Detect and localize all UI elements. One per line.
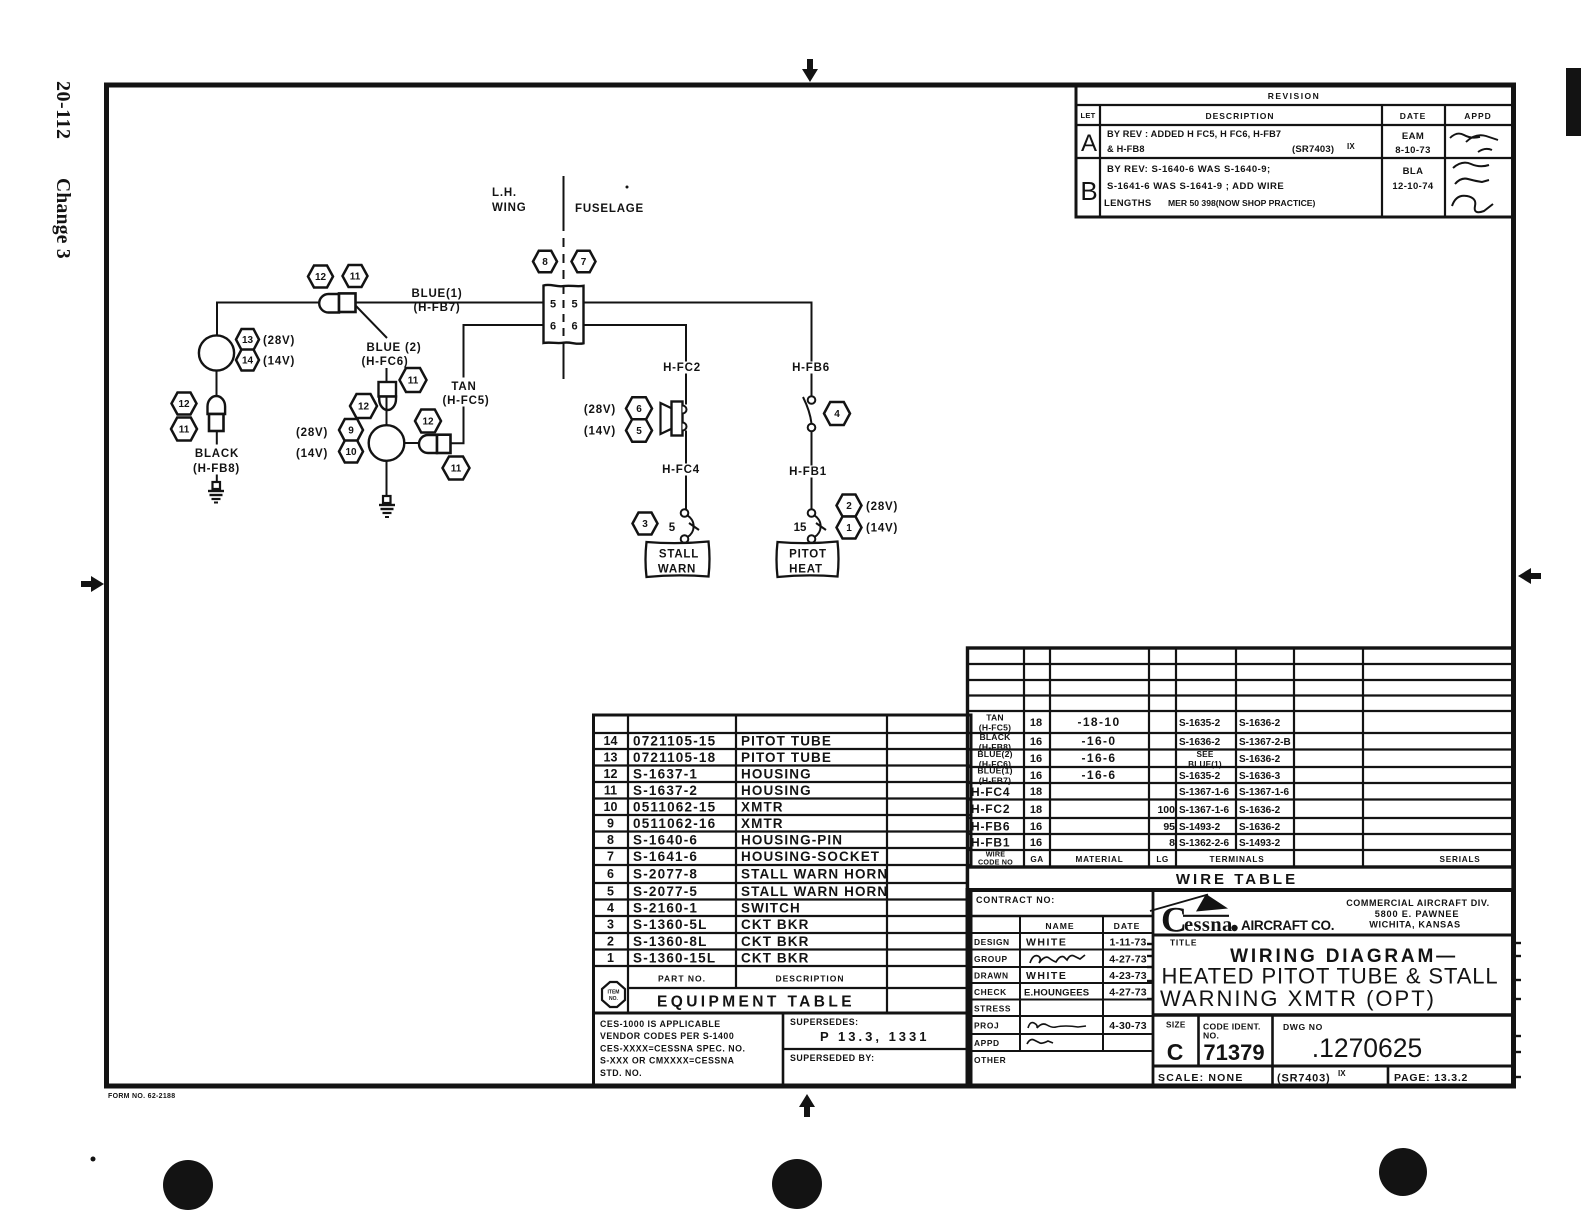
wire BLACK (H-FB8) to ground <box>216 431 218 482</box>
svg-text:AIRCRAFT CO.: AIRCRAFT CO. <box>1241 918 1334 933</box>
svg-text:(14V): (14V) <box>584 426 616 438</box>
svg-text:S-1635-2: S-1635-2 <box>1179 771 1221 782</box>
wire label BLUE(1) (H-FB7) <box>412 288 463 314</box>
svg-text:4: 4 <box>607 901 614 915</box>
svg-text:MER 50 398(NOW SHOP PRACTICE): MER 50 398(NOW SHOP PRACTICE) <box>1168 198 1316 208</box>
equipment table <box>594 715 972 1013</box>
svg-text:PART NO.: PART NO. <box>658 974 706 984</box>
svg-text:STD. NO.: STD. NO. <box>600 1068 642 1078</box>
svg-text:12: 12 <box>604 767 618 781</box>
svg-text:(28V): (28V) <box>584 404 616 416</box>
svg-text:XMTR: XMTR <box>741 816 784 831</box>
svg-text:S-1493-2: S-1493-2 <box>1239 838 1281 849</box>
svg-text:L.H.: L.H. <box>492 187 517 199</box>
svg-text:H-FB1: H-FB1 <box>789 466 827 478</box>
svg-text:11: 11 <box>408 376 419 387</box>
svg-text:TAN: TAN <box>986 713 1004 723</box>
svg-text:4-30-73: 4-30-73 <box>1109 1020 1147 1032</box>
svg-text:CONTRACT NO:: CONTRACT NO: <box>976 895 1055 905</box>
svg-text:11: 11 <box>179 425 190 436</box>
switch item 4 <box>803 396 815 431</box>
stall warning horn <box>661 402 687 436</box>
connector pair 12/11 on BLUE(1) <box>319 293 355 312</box>
svg-text:16: 16 <box>1030 821 1042 833</box>
ground symbol (pitot) <box>208 482 224 503</box>
svg-text:FORM NO. 62-2188: FORM NO. 62-2188 <box>108 1093 175 1100</box>
svg-text:CES-1000 IS APPLICABLE: CES-1000 IS APPLICABLE <box>600 1019 721 1029</box>
svg-text:GROUP: GROUP <box>974 954 1008 964</box>
svg-text:20-112: 20-112 <box>52 81 74 140</box>
svg-text:0511062-15: 0511062-15 <box>633 800 716 815</box>
svg-text:S-XXX OR CMXXXX=CESSNA: S-XXX OR CMXXXX=CESSNA <box>600 1056 735 1066</box>
svg-text:18: 18 <box>1030 786 1042 798</box>
svg-text:S-1637-1: S-1637-1 <box>633 767 698 782</box>
svg-text:HOUSING: HOUSING <box>741 767 812 782</box>
svg-text:H-FB1: H-FB1 <box>971 836 1010 850</box>
svg-text:P 13.3, 1331: P 13.3, 1331 <box>820 1029 930 1044</box>
svg-text:SUPERSEDES:: SUPERSEDES: <box>790 1017 859 1027</box>
wire label TAN (H-FC5) <box>437 378 495 408</box>
svg-text:HOUSING-PIN: HOUSING-PIN <box>741 833 843 848</box>
svg-text:BLUE(1): BLUE(1) <box>977 766 1012 776</box>
svg-text:15: 15 <box>794 522 807 534</box>
equipment table notes and supersedes boxes <box>594 1013 972 1085</box>
binder hole dot right <box>1379 1148 1427 1196</box>
svg-text:EQUIPMENT TABLE: EQUIPMENT TABLE <box>657 994 855 1011</box>
svg-text:CHECK: CHECK <box>974 987 1007 997</box>
connector pin BLUE(2) to xmtr, items 12/11 <box>379 382 397 410</box>
wire label H-FC2 <box>660 362 704 375</box>
svg-text:HEATED PITOT TUBE & STALL: HEATED PITOT TUBE & STALL <box>1161 964 1498 989</box>
binder hole dot center <box>772 1159 822 1209</box>
wire label H-FB6 <box>788 362 834 375</box>
svg-text:B: B <box>1080 176 1097 206</box>
svg-text:NO.: NO. <box>609 996 619 1002</box>
svg-text:GA: GA <box>1030 855 1043 864</box>
svg-text:H-FB6: H-FB6 <box>971 820 1010 834</box>
voltage labels for pitot breaker <box>866 501 898 535</box>
wire H-FC2 from pin 6 <box>584 325 686 405</box>
svg-text:BY REV: S-1640-6 WAS S-1640-9;: BY REV: S-1640-6 WAS S-1640-9; <box>1107 164 1271 175</box>
svg-text:6: 6 <box>571 321 577 333</box>
svg-text:HOUSING-SOCKET: HOUSING-SOCKET <box>741 849 880 864</box>
svg-text:5: 5 <box>550 299 556 311</box>
item 12 callout <box>350 394 377 418</box>
PITOT HEAT destination box <box>777 542 839 578</box>
binder hole dot left <box>163 1160 213 1210</box>
svg-text:9: 9 <box>607 817 614 831</box>
svg-text:TAN: TAN <box>451 381 476 393</box>
svg-text:8-10-73: 8-10-73 <box>1395 145 1431 156</box>
svg-text:WARNING XMTR (OPT): WARNING XMTR (OPT) <box>1160 986 1436 1011</box>
wire branch to BLUE(2) <box>356 306 387 382</box>
wire pitot tube to connector <box>216 371 218 395</box>
svg-text:H-FC4: H-FC4 <box>662 464 700 476</box>
svg-text:-16-6: -16-6 <box>1081 768 1116 782</box>
svg-text:6: 6 <box>636 404 642 415</box>
item 4 callout <box>824 402 850 425</box>
ground symbol (xmtr) <box>379 496 395 517</box>
voltage labels for xmtr <box>296 427 328 460</box>
registration bar top right <box>1566 68 1581 136</box>
svg-text:MATERIAL: MATERIAL <box>1075 855 1123 864</box>
svg-text:WICHITA, KANSAS: WICHITA, KANSAS <box>1369 920 1461 930</box>
svg-text:100: 100 <box>1157 804 1175 816</box>
svg-text:12-10-74: 12-10-74 <box>1392 181 1434 192</box>
item 1 callout <box>837 517 862 539</box>
svg-text:STRESS: STRESS <box>974 1003 1011 1013</box>
svg-text:DESCRIPTION: DESCRIPTION <box>775 974 844 984</box>
connector pair 12/11 on BLACK lead <box>208 396 226 431</box>
svg-text:S-2160-1: S-2160-1 <box>633 901 698 916</box>
svg-text:CES-XXXX=CESSNA SPEC. NO.: CES-XXXX=CESSNA SPEC. NO. <box>600 1043 745 1053</box>
svg-text:8: 8 <box>542 257 548 268</box>
svg-text:S-1641-6 WAS S-1641-9 ; ADD WI: S-1641-6 WAS S-1641-9 ; ADD WIRE <box>1107 181 1284 192</box>
svg-text:S-2077-5: S-2077-5 <box>633 884 698 899</box>
registration arrow top <box>802 59 818 82</box>
svg-text:13: 13 <box>604 751 618 765</box>
svg-text:16: 16 <box>1030 753 1042 765</box>
svg-text:S-1367-2-B: S-1367-2-B <box>1239 737 1291 748</box>
svg-text:S-1636-2: S-1636-2 <box>1179 737 1221 748</box>
item 9 callout <box>339 419 363 441</box>
svg-text:11: 11 <box>604 784 617 798</box>
svg-text:SIZE: SIZE <box>1166 1021 1186 1030</box>
connector pair 12/11 on TAN lead <box>419 435 451 453</box>
heated pitot tube (circle) <box>199 335 234 370</box>
svg-text:H-FC2: H-FC2 <box>663 362 701 374</box>
svg-text:PITOT TUBE: PITOT TUBE <box>741 750 832 765</box>
svg-text:WHITE: WHITE <box>1026 936 1067 948</box>
svg-text:95: 95 <box>1163 821 1175 833</box>
svg-text:4-27-73: 4-27-73 <box>1109 953 1147 965</box>
item 11 callout <box>443 457 470 480</box>
svg-text:S-1493-2: S-1493-2 <box>1179 822 1221 833</box>
svg-text:EAM: EAM <box>1402 131 1424 142</box>
svg-text:5: 5 <box>669 522 676 534</box>
svg-text:6: 6 <box>550 321 556 333</box>
svg-text:(28V): (28V) <box>296 427 328 439</box>
svg-text:XMTR: XMTR <box>741 800 784 815</box>
svg-text:CKT BKR: CKT BKR <box>741 951 809 966</box>
svg-text:E.HOUNGEES: E.HOUNGEES <box>1024 987 1089 998</box>
svg-text:-18-10: -18-10 <box>1077 715 1120 729</box>
svg-text:C: C <box>1161 900 1186 940</box>
wing/fuselage split line <box>563 176 565 379</box>
svg-text:(14V): (14V) <box>866 523 898 535</box>
svg-text:5: 5 <box>636 426 642 437</box>
svg-text:(14V): (14V) <box>296 448 328 460</box>
svg-text:WING: WING <box>492 202 527 214</box>
svg-text:1: 1 <box>846 523 852 534</box>
svg-text:PAGE: 13.3.2: PAGE: 13.3.2 <box>1394 1072 1468 1084</box>
svg-text:STALL WARN HORN: STALL WARN HORN <box>741 867 888 882</box>
svg-text:LG: LG <box>1156 855 1168 864</box>
svg-text:VENDOR CODES PER S-1400: VENDOR CODES PER S-1400 <box>600 1031 734 1041</box>
svg-text:NO.: NO. <box>1203 1031 1219 1041</box>
svg-text:Change 3: Change 3 <box>52 178 73 259</box>
svg-text:DRAWN: DRAWN <box>974 971 1009 981</box>
svg-text:DATE: DATE <box>1114 921 1141 931</box>
svg-text:NAME: NAME <box>1045 921 1074 931</box>
svg-text:S-1635-2: S-1635-2 <box>1179 718 1221 729</box>
svg-text:(SR7403): (SR7403) <box>1292 144 1334 155</box>
svg-text:WARN: WARN <box>658 564 696 576</box>
svg-text:10: 10 <box>604 800 618 814</box>
item 12 callout <box>415 410 441 433</box>
item 11 callout <box>400 368 427 392</box>
item 5 callout <box>626 419 652 442</box>
svg-text:S-1360-5L: S-1360-5L <box>633 917 708 932</box>
svg-text:BLUE(1): BLUE(1) <box>412 288 463 300</box>
svg-text:7: 7 <box>607 850 614 864</box>
svg-text:S-1367-1-6: S-1367-1-6 <box>1179 805 1229 816</box>
svg-text:12: 12 <box>422 417 434 428</box>
item 7 callout <box>572 251 596 272</box>
svg-text:1: 1 <box>607 951 614 965</box>
svg-text:S-1360-8L: S-1360-8L <box>633 934 708 949</box>
STALL WARN destination box <box>646 542 710 578</box>
svg-text:H-FC4: H-FC4 <box>971 785 1010 799</box>
svg-text:BLACK: BLACK <box>195 448 239 460</box>
svg-text:PITOT: PITOT <box>789 549 827 561</box>
svg-text:5: 5 <box>571 299 577 311</box>
svg-text:DESIGN: DESIGN <box>974 937 1010 947</box>
svg-text:4: 4 <box>834 409 840 420</box>
svg-text:TERMINALS: TERMINALS <box>1210 855 1265 864</box>
revision table <box>1076 86 1513 218</box>
circuit breaker 5A (stall warn) <box>681 509 699 543</box>
item 14 callout <box>236 350 259 371</box>
svg-text:0721105-18: 0721105-18 <box>633 750 716 765</box>
svg-text:18: 18 <box>1030 804 1042 816</box>
wire H-FB7 BLUE(1) horizontal run to disconnect pin 5 <box>217 303 543 336</box>
item 12 callout <box>308 266 333 288</box>
svg-text:16: 16 <box>1030 736 1042 748</box>
svg-text:WHITE: WHITE <box>1026 970 1067 982</box>
wire xmtr to TAN connector <box>404 442 419 444</box>
svg-text:SUPERSEDED BY:: SUPERSEDED BY: <box>790 1053 875 1063</box>
voltage labels for pitot tube <box>263 335 295 368</box>
svg-text:S-1640-6: S-1640-6 <box>633 833 698 848</box>
svg-text:essna: essna <box>1184 914 1233 936</box>
item 3 callout <box>633 513 658 535</box>
svg-text:3: 3 <box>607 918 614 932</box>
wire H-FC4 horn to breaker <box>685 431 687 510</box>
svg-text:12: 12 <box>178 399 190 410</box>
item 6 callout <box>626 397 652 420</box>
svg-text:4-23-73: 4-23-73 <box>1109 970 1147 982</box>
svg-text:14: 14 <box>242 356 254 367</box>
svg-text:S-1641-6: S-1641-6 <box>633 849 698 864</box>
svg-text:COMMERCIAL AIRCRAFT DIV.: COMMERCIAL AIRCRAFT DIV. <box>1346 898 1490 908</box>
svg-text:BLUE(1): BLUE(1) <box>1188 760 1222 769</box>
stall warning transmitter (circle) <box>369 396 405 461</box>
svg-text:BLUE(2): BLUE(2) <box>977 749 1012 759</box>
svg-text:FUSELAGE: FUSELAGE <box>575 203 644 215</box>
svg-text:-16-6: -16-6 <box>1081 751 1116 765</box>
svg-text:CODE NO: CODE NO <box>978 858 1013 867</box>
svg-text:S-1636-3: S-1636-3 <box>1239 771 1281 782</box>
wing/fuselage disconnect block pins 5/6 <box>544 285 584 344</box>
svg-text:(28V): (28V) <box>866 501 898 513</box>
svg-text:IX: IX <box>1338 1069 1346 1078</box>
wire table <box>968 648 1514 890</box>
form number <box>108 1093 175 1100</box>
svg-text:H-FC2: H-FC2 <box>971 802 1010 816</box>
svg-text:BLUE (2): BLUE (2) <box>367 342 422 354</box>
svg-text:WIRE TABLE: WIRE TABLE <box>1176 871 1298 888</box>
svg-text:S-2077-8: S-2077-8 <box>633 867 698 882</box>
svg-text:13: 13 <box>242 335 254 346</box>
voltage labels for horn <box>584 404 616 438</box>
xmtr ground wire <box>386 461 388 497</box>
item 2 callout <box>837 495 862 517</box>
svg-text:SERIALS: SERIALS <box>1439 855 1480 864</box>
item 11 callout <box>171 418 197 441</box>
svg-text:LENGTHS: LENGTHS <box>1104 198 1152 209</box>
svg-text:18: 18 <box>1030 717 1042 729</box>
svg-text:8: 8 <box>1169 837 1175 849</box>
svg-text:CKT BKR: CKT BKR <box>741 934 809 949</box>
svg-text:5800 E. PAWNEE: 5800 E. PAWNEE <box>1375 909 1460 919</box>
wire TAN (H-FC5) up to disconnect pin 6 <box>451 325 544 443</box>
svg-text:SEE: SEE <box>1197 750 1214 759</box>
svg-text:6: 6 <box>607 867 614 881</box>
svg-text:2: 2 <box>607 935 614 949</box>
svg-text:12: 12 <box>315 272 327 283</box>
svg-text:APPD: APPD <box>1464 111 1492 121</box>
svg-text:TITLE: TITLE <box>1170 938 1197 948</box>
wire H-FB1 switch to breaker <box>811 432 813 510</box>
svg-text:(28V): (28V) <box>263 335 295 347</box>
svg-text:S-1360-15L: S-1360-15L <box>633 951 716 966</box>
svg-text:S-1637-2: S-1637-2 <box>633 783 698 798</box>
svg-text:(H-FB7): (H-FB7) <box>413 302 460 314</box>
item 10 callout <box>339 441 363 463</box>
svg-text:7: 7 <box>581 257 587 268</box>
svg-text:HOUSING: HOUSING <box>741 783 812 798</box>
registration arrow right <box>1518 568 1541 584</box>
svg-text:STALL: STALL <box>659 549 699 561</box>
svg-text:DATE: DATE <box>1400 111 1427 121</box>
svg-text:HEAT: HEAT <box>789 564 823 576</box>
title block <box>968 890 1522 1086</box>
svg-text:S-1367-1-6: S-1367-1-6 <box>1179 787 1229 798</box>
svg-text:(H-FC6): (H-FC6) <box>361 356 408 368</box>
svg-text:11: 11 <box>451 464 462 475</box>
wire label BLUE(2) (H-FC6) <box>361 342 421 368</box>
svg-text:SCALE: NONE: SCALE: NONE <box>1158 1072 1244 1084</box>
svg-text:S-1636-2: S-1636-2 <box>1239 718 1281 729</box>
wing/fuselage station labels <box>492 187 644 215</box>
svg-text:71379: 71379 <box>1203 1040 1264 1065</box>
svg-text:ITEM: ITEM <box>608 990 620 996</box>
svg-text:S-1367-1-6: S-1367-1-6 <box>1239 787 1289 798</box>
svg-text:APPD: APPD <box>974 1038 1000 1048</box>
svg-text:5: 5 <box>607 885 614 899</box>
svg-text:S-1636-2: S-1636-2 <box>1239 822 1281 833</box>
svg-text:.1270625: .1270625 <box>1312 1033 1423 1063</box>
svg-text:S-1362-2-6: S-1362-2-6 <box>1179 838 1229 849</box>
svg-text:4-27-73: 4-27-73 <box>1109 986 1147 998</box>
wire label H-FB1 <box>786 466 830 479</box>
svg-text:2: 2 <box>846 501 852 512</box>
breaker rating 5 <box>669 522 676 534</box>
svg-text:S-1636-2: S-1636-2 <box>1239 805 1281 816</box>
svg-text:DWG NO: DWG NO <box>1283 1022 1323 1032</box>
svg-text:CKT BKR: CKT BKR <box>741 917 809 932</box>
svg-text:0721105-15: 0721105-15 <box>633 734 716 749</box>
item 8 callout <box>533 251 557 272</box>
svg-text:S-1636-2: S-1636-2 <box>1239 754 1281 765</box>
breaker rating 15 <box>794 522 807 534</box>
svg-text:PITOT TUBE: PITOT TUBE <box>741 734 832 749</box>
svg-text:9: 9 <box>348 426 354 437</box>
svg-text:11: 11 <box>350 272 361 283</box>
svg-text:C: C <box>1167 1039 1184 1065</box>
svg-text:PROJ: PROJ <box>974 1021 999 1031</box>
svg-text:SWITCH: SWITCH <box>741 901 801 916</box>
svg-text:BLACK: BLACK <box>979 732 1011 742</box>
svg-text:LET: LET <box>1080 111 1095 120</box>
svg-text:BY REV : ADDED H FC5, H FC6, H: BY REV : ADDED H FC5, H FC6, H-FB7 <box>1107 129 1281 139</box>
svg-text:H-FB6: H-FB6 <box>792 362 830 374</box>
circuit breaker 15A (pitot heat) <box>808 509 826 543</box>
svg-text:14: 14 <box>604 734 618 748</box>
svg-text:0511062-16: 0511062-16 <box>633 816 716 831</box>
wire H-FB6 from pin 5 <box>584 303 812 397</box>
svg-text:8: 8 <box>607 833 614 847</box>
svg-text:IX: IX <box>1347 142 1355 151</box>
svg-text:& H-FB8: & H-FB8 <box>1107 144 1145 154</box>
svg-text:1-11-73: 1-11-73 <box>1109 936 1146 948</box>
wire label BLACK (H-FB8) <box>187 445 247 476</box>
svg-text:3: 3 <box>642 519 648 530</box>
svg-text:(SR7403): (SR7403) <box>1277 1073 1330 1085</box>
svg-text:-16-0: -16-0 <box>1081 734 1116 748</box>
svg-text:OTHER: OTHER <box>974 1055 1006 1065</box>
item 11 callout <box>343 265 368 287</box>
svg-text:BLA: BLA <box>1403 166 1424 177</box>
svg-text:12: 12 <box>358 402 370 413</box>
svg-text:A: A <box>1081 130 1097 157</box>
svg-text:(H-FC5): (H-FC5) <box>442 395 489 407</box>
svg-text:16: 16 <box>1030 837 1042 849</box>
svg-text:(H-FB8): (H-FB8) <box>193 463 240 475</box>
wire label H-FC4 <box>659 464 703 477</box>
registration arrow left <box>81 576 104 592</box>
svg-text:10: 10 <box>345 447 357 458</box>
page number sidebar text <box>52 81 74 259</box>
registration arrow bottom <box>799 1094 815 1117</box>
svg-text:16: 16 <box>1030 770 1042 782</box>
svg-text:(14V): (14V) <box>263 356 295 368</box>
svg-text:STALL WARN HORN: STALL WARN HORN <box>741 884 888 899</box>
item 13 callout <box>236 329 259 350</box>
svg-text:DESCRIPTION: DESCRIPTION <box>1205 111 1274 121</box>
item 12 callout <box>172 393 197 415</box>
svg-text:REVISION: REVISION <box>1268 91 1321 101</box>
